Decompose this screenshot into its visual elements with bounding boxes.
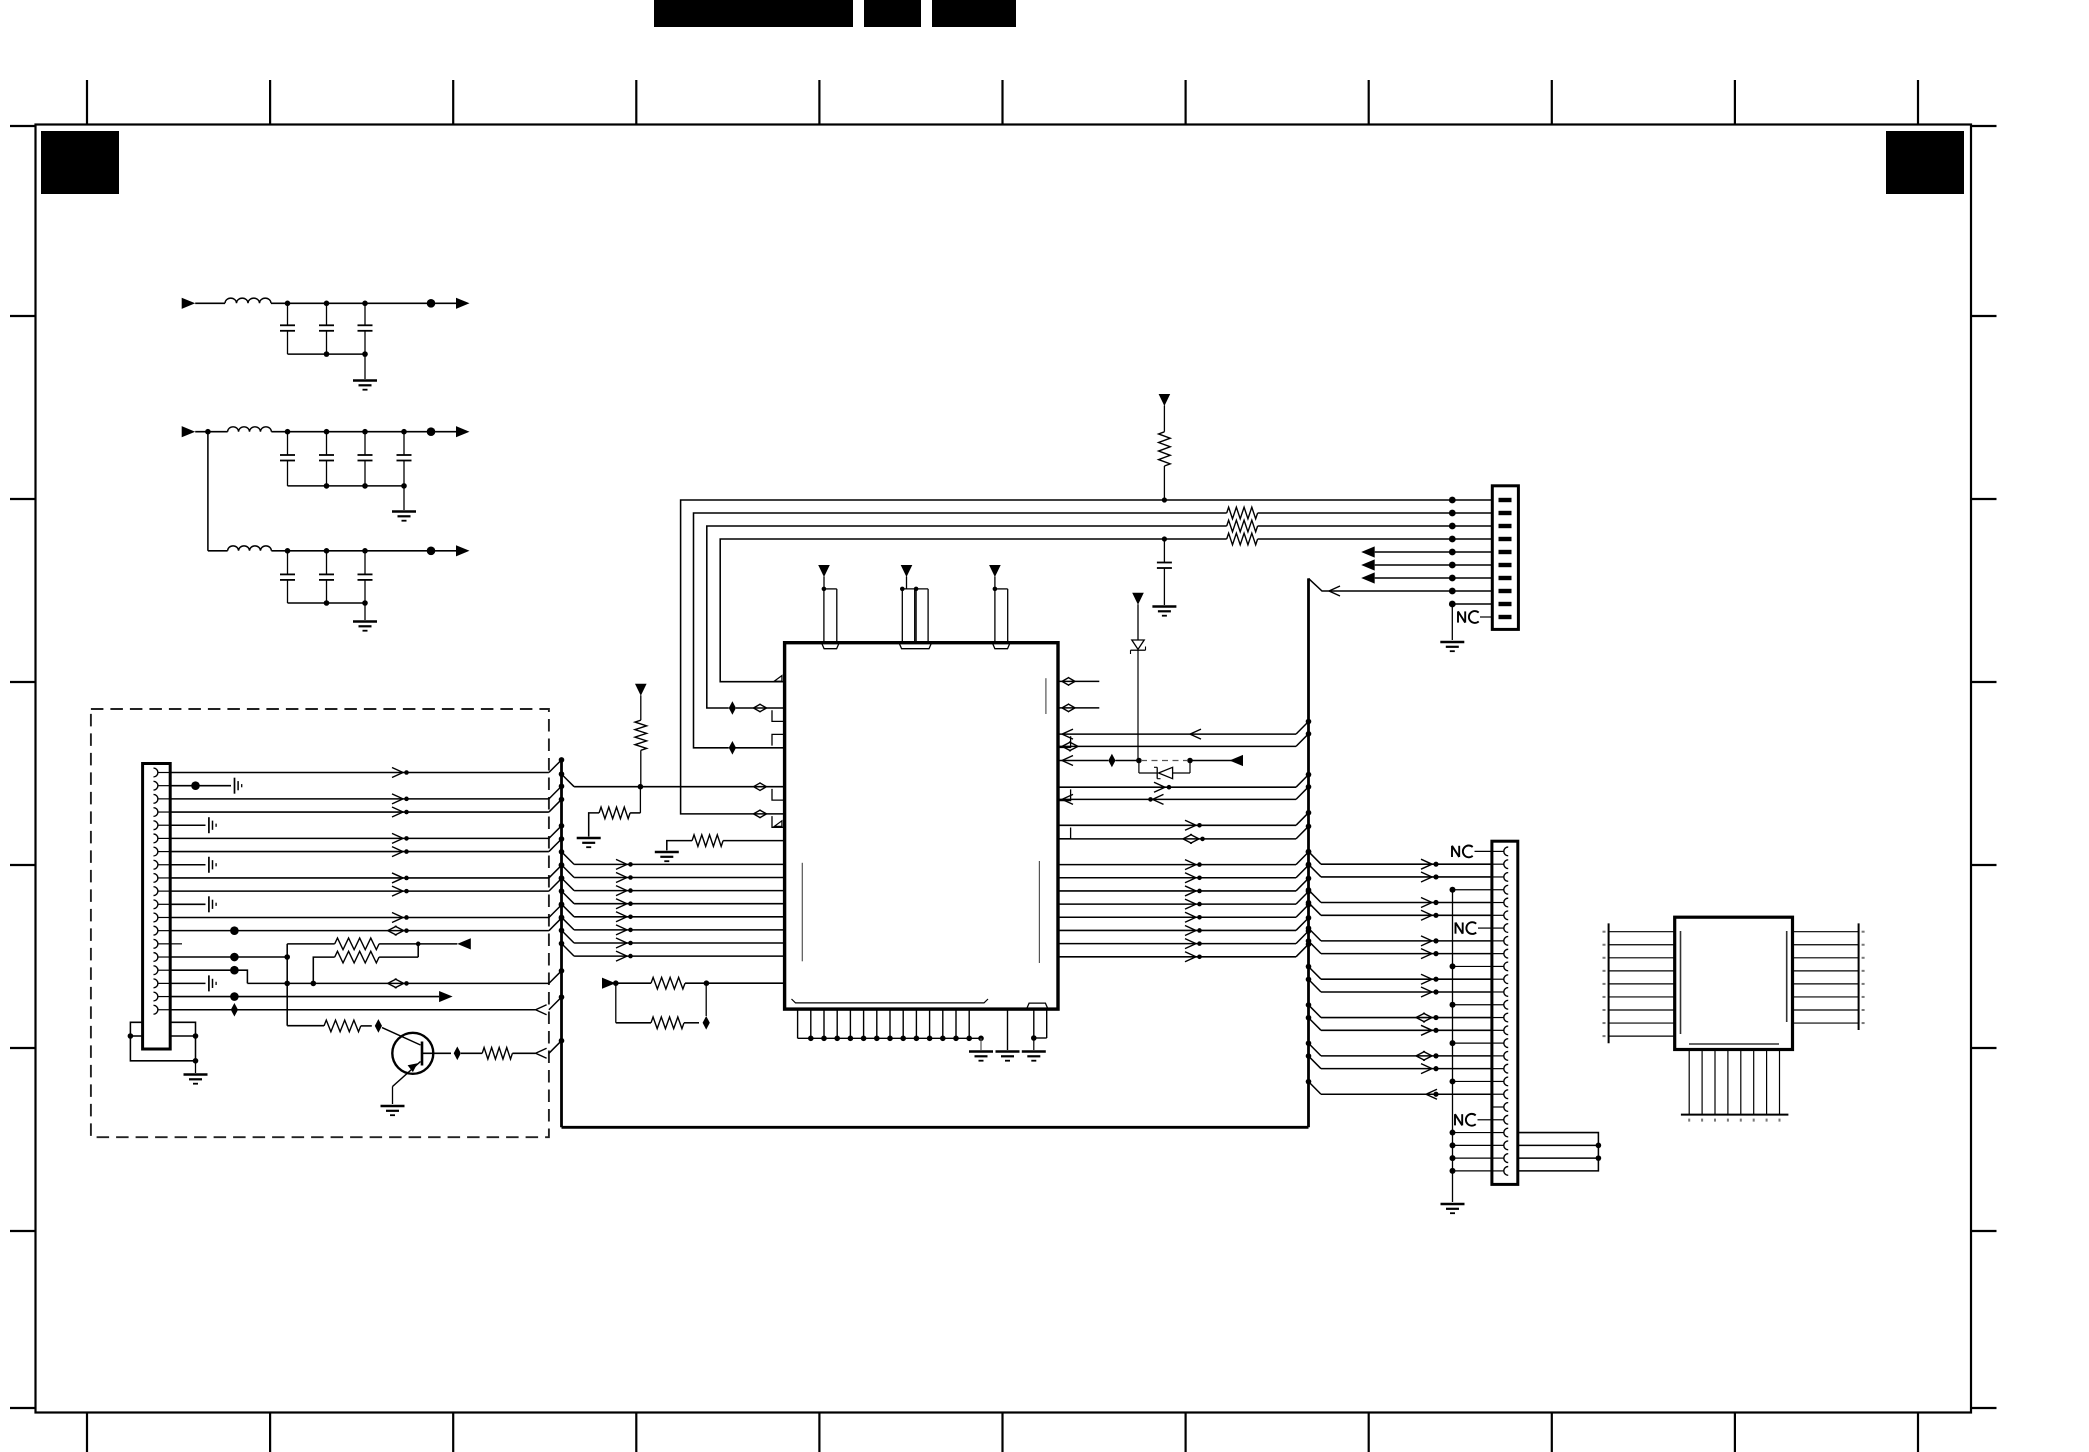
IC U1 inner bottom bracket <box>792 999 989 1003</box>
wire bus to CN2 pin2 <box>1306 849 1312 855</box>
connector CN1 body <box>1492 486 1518 630</box>
capacitor filter2 at x=287.5 <box>287 432 289 455</box>
redaction bar 3 (page header) <box>932 0 1016 27</box>
resistor R10 <box>651 1017 684 1029</box>
resistor R8 base <box>482 1048 512 1060</box>
terminal dashes U2 bottom <box>1688 1119 1690 1122</box>
wire R2 to node <box>640 750 642 786</box>
chassis ground CN3 pin2 <box>234 778 236 794</box>
wire IC row 839 to bus <box>1058 838 1296 840</box>
wire filter2 to filter3 branch <box>207 432 209 551</box>
pin mark left row 681 <box>774 676 782 682</box>
node CN3 pin18 <box>230 992 239 1001</box>
wire IC row 760 diode net <box>1058 760 1108 762</box>
capacitor filter2 at x=404 <box>403 432 405 455</box>
wire row16 to bus <box>247 982 549 984</box>
wire L1 CN1 pin1 to IC row 814 <box>681 500 1493 814</box>
power arrow pullup V1 <box>635 684 647 696</box>
off-page arrow input RX <box>602 978 616 989</box>
wire Q1 base <box>422 1052 451 1054</box>
zone tick marks top/bottom <box>86 80 88 125</box>
pin mark right rows 825-839 <box>1058 828 1071 839</box>
resistor R9 <box>651 977 685 989</box>
wire R5 to off-page <box>379 943 418 945</box>
output arrow filter 3 <box>456 545 470 556</box>
wire bus to CN2 pin17 <box>1306 1040 1312 1046</box>
diamond node collector <box>361 1025 372 1027</box>
redaction bar 2 (page header) <box>864 0 921 27</box>
capacitor filter2 at x=365 <box>364 432 366 455</box>
diode D1 <box>1132 640 1144 649</box>
power arrow VDD B <box>901 565 913 577</box>
wire L4 CN1 pin4 to IC row 682 <box>720 539 1226 682</box>
wire IC row 787 to bus <box>1058 786 1296 788</box>
chassis ground CN3 pin5 <box>208 817 210 833</box>
power arrow VDD C <box>989 565 1001 577</box>
wire L2 CN1 pin2 to IC row 748 <box>732 747 784 749</box>
bus to IC row group (8 wires) <box>559 849 565 855</box>
wire IC row 746 to bus <box>1058 745 1296 747</box>
wire filter 3 input <box>208 550 228 552</box>
capacitor filter2 at x=326.5 <box>326 432 328 455</box>
pin mark left row 814 <box>772 816 785 827</box>
connector CN2 pin contacts <box>1504 847 1508 856</box>
wire bus to CN2 pin9 <box>1306 938 1312 944</box>
wire CN2 shield box right <box>1518 1133 1599 1171</box>
resistor R4 to ground <box>692 835 723 847</box>
inductor L3 <box>228 546 272 551</box>
IC U1 inner line top-right <box>1045 678 1047 714</box>
wire bus to CN2 pin11 <box>1306 964 1312 970</box>
diamond node CN3 pin19 <box>231 1003 238 1017</box>
pin mark right rows 787-799 <box>1058 789 1071 800</box>
wire IC row 799 to bus <box>1058 798 1296 800</box>
wire filter1 bottom rail <box>288 353 366 355</box>
off-page arrow left R5 <box>457 938 471 949</box>
wire R6 left to row16 <box>313 957 334 983</box>
connector CN3 pin contacts <box>154 768 158 777</box>
chassis ground CN3 pin11 <box>208 896 210 912</box>
wire CN3 pin4 to bus <box>170 811 549 813</box>
pin mark left row 787 <box>772 789 785 800</box>
capacitor filter1 at x=287.5 <box>287 303 289 325</box>
node filter2 branch <box>205 429 211 435</box>
bus bottom horizontal <box>562 1126 1309 1129</box>
wire filter 3 output rail <box>271 550 456 552</box>
wire IC row 825 to bus <box>1058 824 1296 826</box>
power arrow VDD A <box>818 565 830 577</box>
wire D2 to node <box>1173 772 1190 774</box>
ground filter 3 <box>364 603 366 620</box>
inductor L2 <box>228 427 272 432</box>
IC U1 inner pin-group line left <box>801 863 803 962</box>
wire bus to CN2 pin3 <box>1306 862 1312 868</box>
IC U2 left pins <box>1609 931 1675 933</box>
resistor R5 <box>335 938 379 950</box>
diamond node row 760 <box>1108 754 1115 768</box>
connector CN1 pin bars <box>1499 498 1512 502</box>
wire CN3 pin2 <box>170 785 231 787</box>
wire D1 to clamp <box>1137 650 1139 760</box>
wire CN3 pin14 stub <box>170 943 182 945</box>
IC U2 inner pin strips <box>1680 931 1682 1034</box>
IC U1 last pin pair <box>1027 1003 1049 1009</box>
diamond node R10 <box>703 1016 710 1030</box>
diamond node base <box>454 1047 461 1061</box>
inductor L1 <box>225 298 271 303</box>
wire dashed section <box>1141 760 1187 762</box>
wire filter 1 output rail <box>271 302 456 304</box>
wire bus to CN2 pin12 <box>1306 977 1312 983</box>
ground filter 2 <box>403 486 405 510</box>
diode D2 <box>1156 767 1158 778</box>
wire CN3 pin6 to bus <box>170 837 549 839</box>
chassis ground CN3 pin8 <box>208 857 210 873</box>
off-page arrow right CN3 pin18 <box>439 991 453 1002</box>
capacitor filter3 at x=365 <box>364 551 366 575</box>
wire filter 2 output rail <box>271 431 456 433</box>
ground CN1 pin9 <box>1440 641 1464 644</box>
IC U2 right pins <box>1793 931 1859 933</box>
wire filter 2 input <box>195 431 227 433</box>
wire CN3 pin16 jog down <box>170 970 247 983</box>
label NC CN2 pin7 <box>1455 922 1457 933</box>
off-page arrows CN1 pins 5-7 <box>1361 546 1375 557</box>
wire CN3 pin3 to bus <box>170 798 549 800</box>
ground CN2 rail <box>1441 1203 1465 1206</box>
wire bus top kink to CN1 pin8 <box>1309 578 1493 591</box>
pin VDD C <box>993 587 998 592</box>
wire bus to CN2 pin6 <box>1306 900 1312 906</box>
wire net A to collector resistor <box>287 1025 324 1027</box>
terminal bar U2 right <box>1858 923 1860 1030</box>
label NC CN1 pin10 <box>1457 611 1459 622</box>
resistor R3 to ground <box>639 787 641 813</box>
pin mark right rows 734-746 <box>1058 736 1071 747</box>
wire Q1 emitter <box>393 1062 421 1087</box>
wire CN2 ground rail <box>1452 890 1454 1202</box>
wire filter 1 input <box>195 302 225 304</box>
wire CN3 shield bracket <box>130 1022 195 1061</box>
corner block top-left <box>41 131 119 194</box>
resistor R6 <box>335 951 379 963</box>
wire collector <box>382 1028 421 1045</box>
ground CN3 shield <box>195 1061 197 1073</box>
bus right vertical <box>1307 578 1310 1127</box>
ground substrate pin <box>996 1050 1020 1053</box>
node filter3 output <box>427 547 436 556</box>
wire bus to CN2 pin15 <box>1306 1015 1312 1021</box>
wire bus to CN2 pin5 <box>1306 887 1312 893</box>
node filter1 cap taps <box>285 301 291 307</box>
IC U2 body <box>1675 917 1793 1049</box>
IC U1 body <box>785 643 1058 1009</box>
capacitor filter1 at x=365 <box>364 303 366 325</box>
ground IC bottom rail <box>980 1038 982 1050</box>
connector CN2 body <box>1492 841 1518 1184</box>
output arrow filter 2 <box>456 426 470 437</box>
node CN3 pin16 <box>230 966 239 975</box>
IC right stub row 681 <box>1062 677 1069 681</box>
IC U1 inner pin-group line right <box>1038 861 1040 963</box>
resistor R11 <box>1227 507 1258 519</box>
wire bus to CN2 pin20 <box>1306 1079 1312 1085</box>
redaction bar 1 (page header) <box>654 0 853 27</box>
chassis ground CN3 pin17 <box>208 975 210 991</box>
wire CN3 pin15 <box>170 956 287 958</box>
input arrow filter 1 <box>182 298 196 309</box>
IC U1 substrate pin <box>1007 1009 1009 1050</box>
power arrow V2 with resistor R14 <box>1159 394 1171 406</box>
capacitor C10 on CN1 pin4 row <box>1163 539 1165 563</box>
capacitor filter3 at x=326.5 <box>326 551 328 575</box>
capacitor filter1 at x=326.5 <box>326 303 328 325</box>
wire bus to CN2 pin14 <box>1306 1002 1312 1008</box>
node CN3 pin13 <box>230 926 239 935</box>
connector CN3 body <box>143 764 171 1050</box>
dashed boundary box <box>91 709 549 1137</box>
node filter1 output <box>427 299 436 308</box>
terminal dashes U2 left <box>1603 931 1606 933</box>
terminal dashes U2 right <box>1862 931 1865 933</box>
ground C10 <box>1152 605 1176 608</box>
transistor Q1 <box>392 1033 433 1074</box>
pin VDD A <box>822 587 827 592</box>
node CN3 pin2 <box>191 781 200 790</box>
wire L3 CN1 pin3 to IC row 708 <box>736 707 785 709</box>
wire filter3 bottom rail <box>288 602 366 604</box>
wire CN3 pin1 to bus <box>170 772 549 774</box>
wire bus to CN2 pin8 <box>1306 925 1312 931</box>
capacitor filter3 at x=287.5 <box>287 551 289 575</box>
node CN3 pin15 <box>230 953 239 962</box>
zone tick marks left/right <box>10 125 36 127</box>
ground Q1 emitter <box>381 1105 405 1108</box>
wire CN3 pin5 <box>170 824 205 826</box>
input arrow filter 2 <box>182 426 196 437</box>
wire CN3 pin12 to bus <box>170 916 549 918</box>
resistor R13 <box>1227 533 1258 545</box>
wire base to bus <box>512 1052 535 1054</box>
wire CN3 pin8 <box>170 864 205 866</box>
wire RX lower branch <box>615 983 617 1023</box>
wire CN3 pin18 <box>170 996 439 998</box>
wire IC row 734 to bus <box>1058 733 1296 735</box>
wire RX row <box>616 982 651 984</box>
resistor R7 <box>324 1020 361 1032</box>
wire CN1 pin9 ground <box>1452 603 1492 605</box>
wire filter2 bottom rail <box>288 485 405 487</box>
wire CN3 pin7 to bus <box>170 851 549 853</box>
bus left vertical <box>560 760 563 1127</box>
wire R5-R6 tie <box>417 944 419 957</box>
wire CN3 pin17 <box>170 982 205 984</box>
wire bus to CN2 pin18 <box>1306 1053 1312 1059</box>
wire CN3 pin9 to bus <box>170 877 549 879</box>
off-page arrow left row 760 <box>1230 755 1244 766</box>
pin mark left row 708 <box>772 710 785 721</box>
IC U2 bottom pins <box>1688 1050 1690 1115</box>
terminal bar U2 bottom <box>1681 1114 1789 1116</box>
bus to IC control row <box>559 771 565 777</box>
wire CN3 pin13 to bus <box>170 930 549 932</box>
power arrow V3 <box>1132 593 1144 605</box>
ground last pin <box>1022 1050 1046 1053</box>
corner block top-right <box>1886 131 1964 194</box>
resistor R12 <box>1227 520 1258 532</box>
IC U1 bottom pins with common rail <box>797 1009 799 1038</box>
IC right stub row 708 <box>1062 704 1069 708</box>
wire R3 left + ground <box>589 813 599 837</box>
ground R4 <box>655 851 679 854</box>
output arrow filter 1 <box>456 298 470 309</box>
wire CN3 pin19 to bus <box>170 1009 535 1011</box>
wire CN3 pin10 to bus <box>170 890 549 892</box>
node filter2 output <box>427 427 436 436</box>
IC right row group (8 wires) to bus <box>1058 864 1296 866</box>
wire CN3 pin11 <box>170 903 205 905</box>
label NC CN2 pin1 <box>1451 846 1453 857</box>
label NC CN2 pin22 <box>1454 1114 1456 1125</box>
terminal bar U2 left <box>1608 923 1610 1043</box>
pin VDD B (double) <box>900 587 905 592</box>
pin mark left row 748 <box>772 734 785 745</box>
wire vertical net A <box>286 944 288 1026</box>
ground filter 1 <box>364 354 366 379</box>
resistor R2 pullup <box>635 720 647 750</box>
